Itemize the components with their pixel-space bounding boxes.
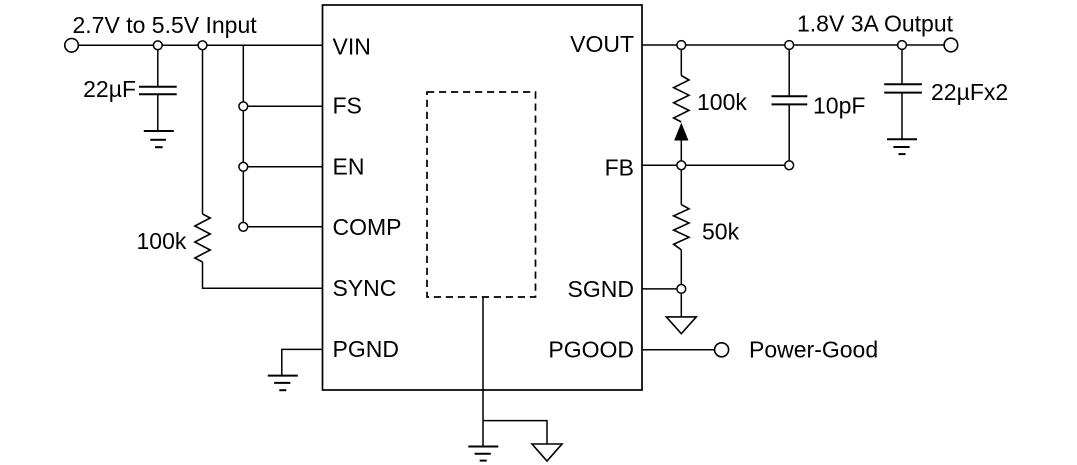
svg-text:1.8V 3A Output: 1.8V 3A Output: [797, 10, 954, 36]
svg-text:FB: FB: [605, 155, 634, 181]
svg-text:FS: FS: [333, 93, 362, 119]
svg-text:VOUT: VOUT: [570, 31, 634, 57]
ground under 22uF: [144, 131, 174, 147]
node junction EN: [239, 162, 248, 171]
svg-text:PGOOD: PGOOD: [548, 337, 634, 363]
arrow on feedback tap: [675, 124, 688, 140]
wire VOUT node to 22uFx2 top: [901, 49, 903, 83]
node 10pF bottom terminal: [785, 161, 794, 170]
PGOOD terminal: [715, 343, 729, 357]
svg-text:VIN: VIN: [333, 34, 371, 60]
svg-text:SGND: SGND: [568, 276, 634, 302]
node junction FB: [677, 161, 686, 170]
capacitor 10pF: [772, 96, 808, 104]
wire FB node to 50k top: [680, 170, 682, 205]
svg-text:50k: 50k: [702, 218, 740, 244]
signal ground triangle (bottom): [532, 444, 562, 461]
IC U1 box: [323, 5, 643, 390]
svg-text:PGND: PGND: [333, 336, 399, 362]
wire SGND pin stub: [642, 288, 677, 290]
resistor 100k (feedback top): [674, 76, 689, 123]
svg-text:SYNC: SYNC: [333, 275, 397, 301]
wire VOUT pin to output terminal: [642, 44, 944, 46]
node junction VOUT at 100k: [677, 41, 686, 50]
signal ground triangle at SGND: [666, 317, 696, 334]
node junction VOUT at 10pF: [785, 41, 794, 50]
resistor 100k (left): [195, 214, 210, 262]
input terminal: [65, 39, 79, 53]
svg-text:22µFx2: 22µFx2: [931, 79, 1008, 105]
capacitor 22uFx2: [884, 84, 922, 92]
ground under IC: [468, 447, 498, 461]
wire arrow to FB node: [680, 138, 682, 161]
wire FS stub: [248, 105, 323, 107]
wire PGND to ground: [282, 349, 323, 375]
wire dashed block to bottom ground: [482, 297, 484, 447]
wire branch to signal ground triangle: [483, 421, 547, 444]
wire VOUT node to 100k top: [680, 49, 682, 75]
wire VIN node down to 22uF: [157, 50, 159, 86]
svg-text:EN: EN: [333, 154, 365, 180]
wire VOUT node to 10pF top: [788, 49, 790, 95]
wire 50k to SGND node: [680, 250, 682, 285]
wire 22uFx2 to ground: [901, 93, 903, 140]
svg-text:Power-Good: Power-Good: [749, 337, 878, 363]
resistor 50k: [674, 205, 689, 250]
node junction COMP: [239, 222, 248, 231]
wire FB pin to 10pF bottom: [642, 164, 785, 166]
capacitor 22uF: [139, 87, 177, 95]
node junction VOUT at 22uFx2: [898, 41, 907, 50]
svg-text:100k: 100k: [137, 228, 187, 254]
svg-text:22µF: 22µF: [83, 76, 136, 102]
internal dashed block: [427, 92, 536, 297]
wire EN stub: [248, 166, 323, 168]
ground under 22uFx2: [887, 139, 917, 154]
wire bus VIN to COMP node: [242, 45, 244, 227]
node junction at 22uF tap: [153, 41, 162, 50]
node junction FS: [239, 102, 248, 111]
node junction at 100k tap: [198, 41, 207, 50]
svg-text:100k: 100k: [697, 89, 747, 115]
svg-text:COMP: COMP: [333, 214, 402, 240]
wire 22uF to ground: [157, 94, 159, 131]
svg-text:10pF: 10pF: [813, 93, 865, 119]
node junction SGND: [677, 285, 686, 294]
svg-text:2.7V to 5.5V Input: 2.7V to 5.5V Input: [73, 12, 258, 38]
wire 10pF to FB node circle: [788, 104, 790, 160]
wire PGOOD pin to terminal: [642, 349, 715, 351]
wire COMP stub: [248, 226, 323, 228]
output terminal: [944, 38, 958, 52]
wire 100k to SYNC pin: [203, 262, 323, 288]
ground at PGND: [268, 376, 298, 391]
wire SGND node to triangle ground: [680, 293, 682, 317]
wire input terminal to VIN pin: [78, 44, 322, 46]
wire VIN node down to 100k resistor: [202, 50, 204, 214]
